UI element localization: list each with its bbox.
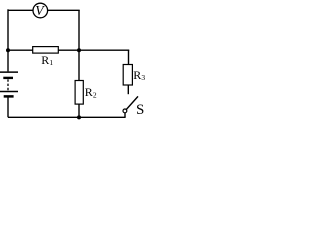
battery GB plate short thick 2 xyxy=(4,95,14,98)
wire top-left segment xyxy=(8,9,33,11)
svg-text:S: S xyxy=(136,102,144,118)
voltmeter V xyxy=(33,3,48,18)
wire middle row R1 to R3 corner xyxy=(58,49,129,51)
wire left vertical upper xyxy=(7,9,9,71)
wire R3 branch upper xyxy=(128,50,130,65)
resistor R2 xyxy=(75,81,83,105)
wire middle row left of R1 xyxy=(8,49,33,51)
node junction left xyxy=(6,48,10,52)
wire top-right segment xyxy=(48,9,80,11)
wire R2 branch lower xyxy=(78,104,80,117)
wire bottom row xyxy=(8,116,126,118)
battery dashed link xyxy=(7,79,9,90)
wire R2 branch upper xyxy=(78,50,80,80)
wire battery to bottom xyxy=(7,97,9,117)
battery GB plate long 1 xyxy=(0,71,18,73)
wire right vertical from top to node xyxy=(78,10,80,50)
resistor R3 xyxy=(123,65,132,86)
switch S lever xyxy=(126,96,138,109)
switch S pivot circle xyxy=(123,109,127,113)
node junction bottom xyxy=(77,115,81,119)
wire R3 branch lower (to switch contact) xyxy=(127,85,129,94)
node junction center xyxy=(77,48,81,52)
battery GB plate long 2 xyxy=(0,91,18,93)
wire switch stub xyxy=(124,113,126,118)
resistor R1 xyxy=(33,47,59,54)
battery GB plate short thick 1 xyxy=(3,77,13,79)
